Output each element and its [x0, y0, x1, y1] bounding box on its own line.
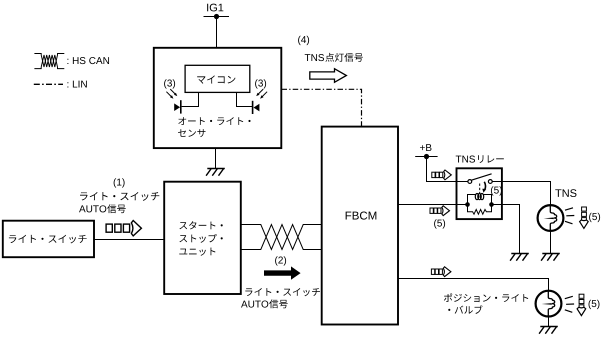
bulb position light: [536, 291, 562, 317]
wire IG1 to sensor box: [216, 17, 218, 49]
label FBCM: [346, 211, 377, 219]
legend label LIN: [67, 81, 86, 88]
wire sensor box to ground: [215, 148, 217, 169]
twisted pair HS CAN wires: [241, 225, 322, 250]
legend LIN dash-dot sample: [34, 83, 63, 85]
light rays TNS bulb: [565, 208, 574, 224]
hollow arrow signal direction (4): [310, 69, 347, 83]
relay coil junction dots: [465, 202, 470, 207]
relay resistor branch: [468, 205, 492, 215]
ground below sensor: [206, 169, 225, 176]
ground TNS bulb: [541, 254, 560, 261]
label light switch: [9, 235, 87, 244]
label TNS relay: [456, 156, 475, 163]
legend label HS CAN: [67, 57, 109, 64]
power feed IG1 label: [207, 4, 223, 12]
relay switch contacts: [457, 181, 468, 183]
label auto light sensor line2: [178, 129, 205, 137]
label (3) left: [164, 79, 175, 88]
label (1) auto signal line2: [79, 205, 106, 212]
connector symbol on +B wire: [432, 172, 435, 177]
wire FBCM to relay coil: [398, 204, 468, 206]
box TNS relay: [457, 168, 502, 219]
box microcomputer (maikon): [185, 65, 250, 92]
label position light bulb line1: [444, 293, 528, 302]
wire FBCM to position light bulb: [398, 279, 549, 291]
light arrows into right photodiode: [262, 92, 267, 97]
wire TNS bulb to ground: [550, 231, 552, 254]
light arrows into left photodiode: [166, 92, 171, 97]
ground relay coil: [510, 254, 529, 261]
label TNS lighting signal: [305, 54, 324, 61]
wire light switch to start-stop unit: [94, 239, 164, 241]
power feed IG1 bar and dot: [204, 16, 230, 18]
relay coil branch: [468, 195, 492, 205]
label maikon: [197, 75, 235, 83]
label position light bulb line2: [448, 305, 482, 314]
box FBCM: [322, 127, 398, 325]
label (3) right: [255, 79, 266, 88]
label (5) relay coil: [491, 186, 502, 195]
label TNS: [555, 189, 576, 197]
relay actuation dashed link: [479, 184, 481, 195]
black arrow signal direction (2): [264, 266, 301, 279]
power feed +B bar and dot: [415, 156, 437, 158]
power feed +B label: [420, 144, 431, 151]
relay curved actuation arrow: [484, 182, 485, 190]
label (2) light switch auto signal line1: [245, 288, 320, 296]
photodiode left: [180, 100, 182, 113]
label (1) light switch auto signal line1: [80, 192, 159, 201]
label (5) under connector: [434, 219, 445, 228]
photodiode right: [252, 101, 254, 114]
ground position bulb: [539, 327, 558, 334]
wire +B to relay: [427, 157, 457, 182]
wire micom to left photodiode: [182, 92, 199, 106]
bulb TNS: [538, 205, 564, 231]
wire position bulb to ground: [548, 317, 550, 327]
connector symbol (1): [106, 224, 112, 232]
relay switch blade: [471, 174, 491, 180]
box light switch: [3, 221, 94, 258]
label (1): [114, 178, 125, 187]
light rays position bulb: [565, 296, 574, 312]
box start-stop unit: [164, 182, 241, 294]
label (2): [275, 256, 286, 265]
wire micom to right photodiode: [237, 92, 253, 106]
label auto light sensor line1: [178, 117, 250, 125]
connector stack and (5) position bulb: [579, 294, 584, 298]
label (2) auto signal line2: [241, 301, 268, 308]
label start-stop unit: [179, 221, 222, 229]
box auto-light sensor: [154, 48, 281, 148]
wire relay coil to ground: [492, 205, 520, 254]
connector stack and (5) TNS bulb: [582, 207, 587, 211]
legend twisted-pair symbol (HS CAN): [34, 54, 64, 69]
wire LIN dash-dot sensor to FBCM: [282, 89, 362, 126]
connector symbol on position light wire: [431, 269, 434, 274]
label (4): [298, 36, 309, 45]
wire relay switch to TNS bulb: [502, 182, 551, 206]
connector symbol (5) on coil wire: [430, 208, 433, 213]
